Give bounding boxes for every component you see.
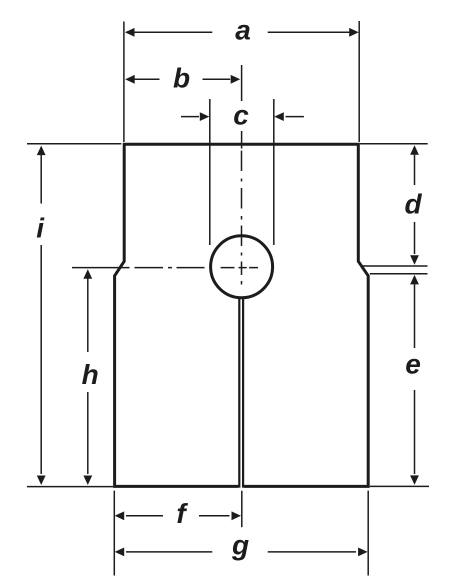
svg-text:d: d <box>404 189 422 220</box>
extension line f left <box>113 491 115 576</box>
svg-text:g: g <box>231 530 249 561</box>
extension line h top <box>72 267 130 269</box>
dimension h line <box>83 269 92 485</box>
extension line i bottom <box>27 486 113 488</box>
dimension e line <box>410 275 419 485</box>
label f <box>176 498 188 529</box>
label c <box>233 100 249 131</box>
extension line e bottom <box>370 485 429 487</box>
dimension a line <box>125 28 359 37</box>
label a <box>235 15 251 46</box>
horizontal centerline <box>135 267 259 269</box>
svg-text:h: h <box>82 359 99 390</box>
slit left line <box>238 297 240 488</box>
svg-text:a: a <box>235 15 251 46</box>
label e <box>405 349 421 380</box>
vertical centerline <box>241 151 243 285</box>
extension line a right <box>358 21 360 142</box>
extension line f right <box>241 491 243 527</box>
extension line a left <box>123 22 125 143</box>
label i <box>36 213 45 244</box>
label d <box>404 189 422 220</box>
hole circle <box>211 236 273 298</box>
dimension g line <box>115 548 368 557</box>
svg-text:i: i <box>36 213 45 244</box>
dimension i line <box>37 146 46 485</box>
label g <box>231 530 249 561</box>
part outline <box>115 144 369 486</box>
label h <box>82 359 99 390</box>
extension line g right <box>367 491 369 576</box>
extension line c right <box>273 99 275 245</box>
svg-text:c: c <box>233 100 249 131</box>
extension line e top <box>370 273 428 275</box>
svg-text:e: e <box>405 349 421 380</box>
extension line i top <box>27 143 121 145</box>
extension line d bottom <box>362 265 428 267</box>
dimension b line <box>125 75 240 84</box>
dimension c left arrow <box>181 112 209 121</box>
dimension f line <box>115 511 241 520</box>
dimension c right arrow <box>274 112 304 121</box>
slit right line <box>242 297 244 488</box>
svg-text:f: f <box>176 498 188 529</box>
extension line d top <box>360 143 428 145</box>
dimension d line <box>410 145 419 265</box>
label b <box>173 63 190 94</box>
extension line b right <box>241 65 243 149</box>
svg-text:b: b <box>173 63 190 94</box>
extension line c left <box>209 99 211 245</box>
